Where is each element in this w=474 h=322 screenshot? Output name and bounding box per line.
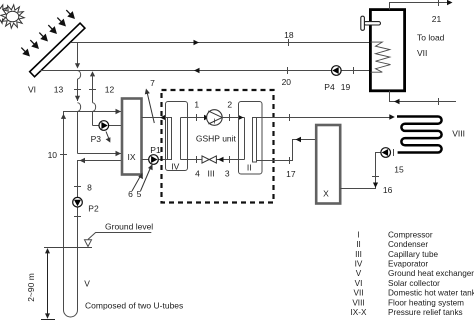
wire 17 : X to condenser [257,137,317,164]
svg-text:VIII: VIII [452,129,465,139]
wire 2 : compressor to condenser [222,114,244,121]
compressor I [207,110,223,126]
sun [0,5,24,29]
svg-text:IV: IV [171,161,179,171]
svg-text:2: 2 [227,99,232,109]
svg-text:VI: VI [355,279,363,288]
ground line [44,247,92,249]
GSHP unit dashed box [162,90,274,203]
wire IX to evaporator via P1 (bottom) [142,159,168,161]
tank X [316,125,340,204]
svg-text:X: X [323,189,329,199]
floor heating coil VIII [397,117,442,153]
svg-text:20: 20 [282,77,292,87]
svg-text:IV: IV [355,260,363,269]
svg-text:17: 17 [286,169,296,179]
tank inlet fitting [361,16,381,30]
svg-text:15: 15 [394,165,404,175]
wire 1 : evaporator to compressor [181,114,210,121]
legend [351,230,474,317]
svg-text:IX: IX [127,152,135,162]
svg-text:Capillary tube: Capillary tube [388,250,439,259]
svg-text:2~90 m: 2~90 m [26,273,36,302]
tank coil [371,42,391,72]
svg-text:P3: P3 [91,134,102,144]
svg-text:P4: P4 [324,82,335,92]
svg-text:Pressure relief tanks: Pressure relief tanks [388,308,463,317]
dimension arrow 2~90 m [41,248,55,320]
leader arrow 7 [145,89,155,124]
svg-text:21: 21 [432,14,442,24]
svg-text:V: V [356,269,362,278]
svg-text:Ground level: Ground level [105,222,153,232]
pump P4 [324,66,341,92]
svg-text:III: III [355,250,362,259]
wire tank bottom return [390,91,457,105]
svg-text:18: 18 [284,30,294,40]
svg-text:7: 7 [150,78,155,88]
svg-text:VII: VII [353,289,363,298]
svg-text:Composed of two U-tubes: Composed of two U-tubes [85,300,183,310]
svg-text:4: 4 [195,168,200,178]
svg-text:Solar collector: Solar collector [388,279,440,288]
wire 8 : IX outlet down through P2 to borehole right leg [74,158,122,310]
leader arrow for P3 [106,132,111,143]
wire 21 : tank top outlet [390,0,453,10]
svg-text:I: I [214,118,216,125]
svg-text:III: III [208,168,215,178]
svg-text:12: 12 [105,85,115,95]
svg-text:13: 13 [54,85,64,95]
svg-text:II: II [247,162,252,172]
svg-text:10: 10 [48,150,58,160]
pump P2 [73,197,99,213]
svg-text:VII: VII [417,48,427,58]
svg-text:II: II [356,240,361,249]
leader arrows 6 and 5 [132,164,153,191]
svg-text:Ground heat exchanger: Ground heat exchanger [388,269,474,278]
svg-text:3: 3 [225,168,230,178]
svg-text:1: 1 [194,99,199,109]
ground level marker [85,233,152,247]
pump P1 [149,145,161,165]
svg-text:To load: To load [417,33,445,43]
wire 18 : collector top to tank [71,39,371,46]
svg-text:16: 16 [383,185,393,195]
svg-text:VI: VI [28,85,36,95]
svg-text:5: 5 [137,189,142,199]
wire 3 : condenser to capillary tube [216,156,244,163]
svg-text:V: V [84,279,90,289]
domestic hot water tank VII [370,10,404,91]
ground heat exchanger V : U-bend [64,310,78,317]
svg-text:GSHP unit: GSHP unit [196,133,237,143]
pump P3 [91,121,109,144]
solar collector VI [30,23,85,77]
svg-text:IX-X: IX-X [351,308,367,317]
wire 16 : floor coil return to X [340,149,393,189]
svg-text:8: 8 [87,183,92,193]
wire 20 : collector bottom line to tank [40,67,371,74]
svg-text:Evaporator: Evaporator [388,260,428,269]
wire 12 : vertical to P3 [89,71,122,125]
solar radiation arrows [21,10,74,55]
pump 15 [381,148,404,175]
evaporator IV [166,102,188,171]
svg-text:Domestic hot water tank: Domestic hot water tank [388,289,474,298]
condenser II [239,102,263,175]
svg-text:Condenser: Condenser [388,240,428,249]
capillary tube III (expansion valve) [202,156,216,163]
svg-text:19: 19 [341,82,351,92]
svg-text:Compressor: Compressor [388,230,433,239]
svg-text:P2: P2 [88,204,99,214]
wire condenser to floor coil (top) [257,114,395,121]
wire IX to evaporator (top) [142,115,168,120]
svg-text:6: 6 [128,189,133,199]
tank IX [122,99,142,175]
wire 13 : vertical from top line [74,43,121,157]
svg-text:P1: P1 [150,145,161,155]
svg-text:VIII: VIII [352,298,364,307]
wire 10 : borehole left leg up to IX inlet [60,107,121,310]
wire 4 : valve to evaporator [181,156,203,163]
svg-text:Floor heating system: Floor heating system [388,298,464,307]
svg-text:I: I [357,230,359,239]
